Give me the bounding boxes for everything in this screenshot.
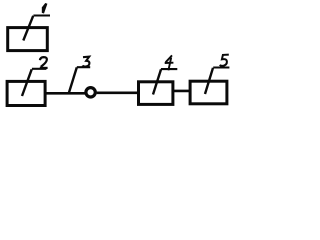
leader shelf 5 <box>213 66 229 68</box>
leader line 1 <box>23 16 33 41</box>
leader line 2 <box>22 69 32 96</box>
label 4 <box>165 55 174 70</box>
leader line 5 <box>205 68 213 94</box>
box 1 <box>8 28 48 51</box>
leader shelf 4 <box>161 68 177 70</box>
box 2 <box>7 81 45 105</box>
label 2 <box>40 57 48 68</box>
leader shelf 3 <box>77 66 90 68</box>
leader shelf 2 <box>32 68 47 70</box>
label 3 <box>83 57 90 67</box>
wire box4 to box5 <box>173 90 191 93</box>
wire circle to box4 <box>97 91 139 94</box>
leader line 3 <box>69 67 77 92</box>
wire box2 to circle <box>47 92 86 95</box>
label 5 <box>220 55 229 66</box>
circle element 3 <box>86 88 95 97</box>
box 4 <box>139 82 173 105</box>
label 1 <box>42 3 48 14</box>
box 5 <box>190 81 227 104</box>
leader line 4 <box>153 69 161 94</box>
leader shelf 1 <box>33 14 50 16</box>
